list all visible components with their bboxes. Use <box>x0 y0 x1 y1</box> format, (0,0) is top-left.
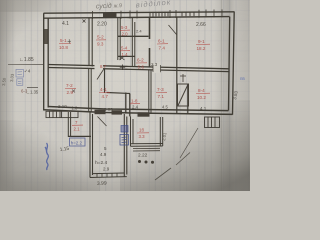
right crease band <box>214 0 250 191</box>
svg-text:3.99: 3.99 <box>97 180 107 187</box>
window left wall <box>43 29 48 44</box>
blue stamp S2 <box>17 79 23 86</box>
svg-text:5.6: 5.6 <box>138 64 145 69</box>
room7 left wall <box>68 112 70 137</box>
stray pencil diagonal B <box>176 153 190 166</box>
svg-text:8.7: 8.7 <box>100 64 107 69</box>
svg-text:2.66: 2.66 <box>196 22 206 28</box>
room 3.3 annex left wall <box>131 116 134 146</box>
svg-text:2.10: 2.10 <box>58 104 67 109</box>
svg-text:2.0: 2.0 <box>122 31 129 36</box>
wall V1 room1|room2 <box>89 18 92 66</box>
svg-text:∟1.35: ∟1.35 <box>26 90 39 95</box>
door swing room5 <box>98 117 107 127</box>
svg-text:5-4: 5-4 <box>121 46 128 51</box>
window bottom wall B <box>138 112 150 116</box>
door swing room F <box>169 25 177 35</box>
svg-text:∟1.85: ∟1.85 <box>19 57 34 63</box>
wall H2 small rooms <box>118 55 135 57</box>
svg-text:6-1: 6-1 <box>158 39 165 44</box>
svg-text:4.1: 4.1 <box>200 106 207 111</box>
svg-text:5-1: 5-1 <box>60 38 67 43</box>
wall V3 <box>132 18 135 67</box>
top edge band <box>0 0 90 12</box>
door swing room I <box>97 70 104 80</box>
x mark near label H <box>72 90 75 93</box>
svg-text:5-2: 5-2 <box>97 35 104 40</box>
annex porch steps <box>133 148 160 151</box>
svg-text:2.9: 2.9 <box>103 167 110 172</box>
svg-text:✓4: ✓4 <box>24 69 31 74</box>
blue vertical scribble <box>45 143 48 170</box>
outer left wall <box>44 13 49 110</box>
crease line <box>221 0 222 191</box>
svg-text:3.03: 3.03 <box>104 107 113 112</box>
wall V9 <box>129 94 131 117</box>
grid vertical lines <box>0 0 250 191</box>
svg-text:4.7: 4.7 <box>102 94 109 99</box>
svg-text:6-2: 6-2 <box>137 58 144 63</box>
room5 left wall <box>90 113 93 178</box>
svg-text:2.3: 2.3 <box>151 62 158 67</box>
wall V2 <box>118 18 120 60</box>
right entry steps <box>205 117 220 128</box>
left edge band <box>0 0 16 191</box>
svg-text:3.03: 3.03 <box>9 73 15 82</box>
svg-text:10.8: 10.8 <box>59 45 68 50</box>
room 3.3 bottom wall <box>131 144 163 147</box>
plus mark at wall junction <box>120 65 125 71</box>
room5 right wall <box>124 114 127 177</box>
svg-text:5-3: 5-3 <box>121 25 128 30</box>
svg-text:4.9: 4.9 <box>100 152 107 157</box>
svg-text:2.9: 2.9 <box>67 90 74 95</box>
window top wall B hatched <box>150 12 168 17</box>
svg-text:18.2: 18.2 <box>197 46 206 51</box>
svg-text:4.5: 4.5 <box>162 105 168 110</box>
svg-text:пв: пв <box>240 76 245 81</box>
blue stamp S1 <box>16 70 24 78</box>
blue stamp S4 <box>121 126 128 133</box>
window top wall C hatched <box>182 12 194 17</box>
svg-text:7.1: 7.1 <box>158 94 165 99</box>
paper background <box>0 0 250 191</box>
grid horizontal lines <box>0 0 250 191</box>
small x room A <box>83 20 86 23</box>
svg-text:9.3: 9.3 <box>97 41 104 46</box>
blue box h=2.2 <box>70 138 86 146</box>
svg-text:2.4: 2.4 <box>136 29 142 34</box>
svg-text:7-2: 7-2 <box>66 83 73 88</box>
outer top wall <box>44 12 235 18</box>
outer right wall <box>229 12 235 115</box>
left entry steps <box>46 111 78 117</box>
dim extension line left <box>8 64 44 87</box>
wall V7b <box>104 69 106 94</box>
svg-text:h=2.4: h=2.4 <box>95 160 107 166</box>
shaft with diagonal <box>178 74 189 106</box>
window bottom wall B2 <box>112 110 123 114</box>
room7 bottom wall <box>68 135 91 137</box>
room5 bottom wall with porch hatch <box>90 173 127 178</box>
svg-text:8-4: 8-4 <box>198 88 205 93</box>
svg-text:1-б: 1-б <box>131 99 138 104</box>
top-left corner shading <box>0 0 70 60</box>
cross mark x near room D <box>120 56 125 60</box>
svg-text:7.4: 7.4 <box>159 45 166 50</box>
wall H1 small rooms <box>118 35 149 37</box>
svg-text:4-1: 4-1 <box>100 87 107 92</box>
svg-text:h=2.2: h=2.2 <box>71 140 83 145</box>
bottom-right shading <box>120 100 250 191</box>
svg-text:3.50: 3.50 <box>1 77 7 86</box>
svg-text:7-3: 7-3 <box>157 87 164 92</box>
stray pencil diagonal C <box>180 128 198 158</box>
svg-text:1.4: 1.4 <box>122 52 129 57</box>
svg-text:2.4: 2.4 <box>132 105 139 110</box>
tick marks top wall <box>93 9 223 19</box>
middle horizontal wall <box>48 65 229 72</box>
svg-text:9-1: 9-1 <box>198 39 205 44</box>
door gap middle wall right <box>153 64 161 73</box>
stray pencil diagonal A <box>155 168 171 180</box>
svg-text:сусід ж.9: сусід ж.9 <box>96 1 123 10</box>
svg-text:3.3: 3.3 <box>139 134 146 139</box>
svg-text:1.8: 1.8 <box>72 106 78 111</box>
window bottom wall A <box>95 110 106 115</box>
wall V4 <box>149 18 151 68</box>
bottom-left shading <box>0 120 100 191</box>
door gap middle wall <box>95 64 104 73</box>
outer bottom wall <box>44 107 233 115</box>
room 3.3 annex right wall <box>160 117 162 146</box>
window top wall A <box>103 13 117 18</box>
svg-text:4.1: 4.1 <box>62 21 69 27</box>
wall V7 <box>89 68 92 113</box>
wall V8 bathroom <box>125 93 127 114</box>
svg-text:2.22: 2.22 <box>138 153 148 159</box>
wall V10 room K left <box>149 70 151 115</box>
wall V6 with shaft <box>177 17 188 114</box>
wall H3 bathroom top <box>107 93 130 94</box>
svg-text:2.20: 2.20 <box>97 22 107 28</box>
svg-text:1б: 1б <box>139 128 144 133</box>
svg-text:10.2: 10.2 <box>197 95 206 100</box>
blue stamp S5 <box>120 135 129 146</box>
svg-text:2.1: 2.1 <box>74 126 81 131</box>
porch post dots <box>138 160 154 164</box>
